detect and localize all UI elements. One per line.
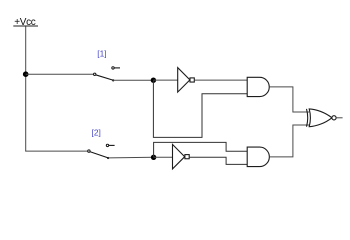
switch S2 xyxy=(88,144,115,159)
wire junction B to inverter U2 xyxy=(154,156,173,158)
wire A-route to AND U3 lower input xyxy=(153,80,247,137)
junction node A xyxy=(151,78,156,83)
wire AND U3 output to XNOR top input xyxy=(269,87,309,112)
XNOR gate U5 xyxy=(307,109,337,127)
svg-text:[2]: [2] xyxy=(92,127,101,137)
wire S1 to junction A xyxy=(113,79,153,81)
wire Vcc vertical xyxy=(25,27,27,152)
wire AND U4 output to XNOR bottom input xyxy=(269,125,309,157)
switch S1 xyxy=(94,67,121,82)
inverter U2 xyxy=(173,144,190,169)
wire S2 to junction B xyxy=(108,156,154,159)
junction node B xyxy=(151,155,156,160)
wire U2 output to AND U4 lower input xyxy=(189,157,247,164)
wire B-route to AND U4 upper input xyxy=(154,142,248,157)
AND gate U3 xyxy=(247,77,269,96)
wire junction A to inverter U1 xyxy=(153,79,177,81)
inverter U1 xyxy=(178,68,195,93)
wire Vcc to switch S2 xyxy=(25,150,88,152)
junction node Vcc-S1 xyxy=(23,71,29,77)
AND gate U4 xyxy=(247,147,269,167)
wire to switch S1 xyxy=(26,73,94,75)
wire U1 output to AND U3 xyxy=(194,79,247,81)
svg-text:[1]: [1] xyxy=(97,48,106,58)
power rail bar xyxy=(13,25,38,27)
wire XNOR output xyxy=(336,117,342,119)
